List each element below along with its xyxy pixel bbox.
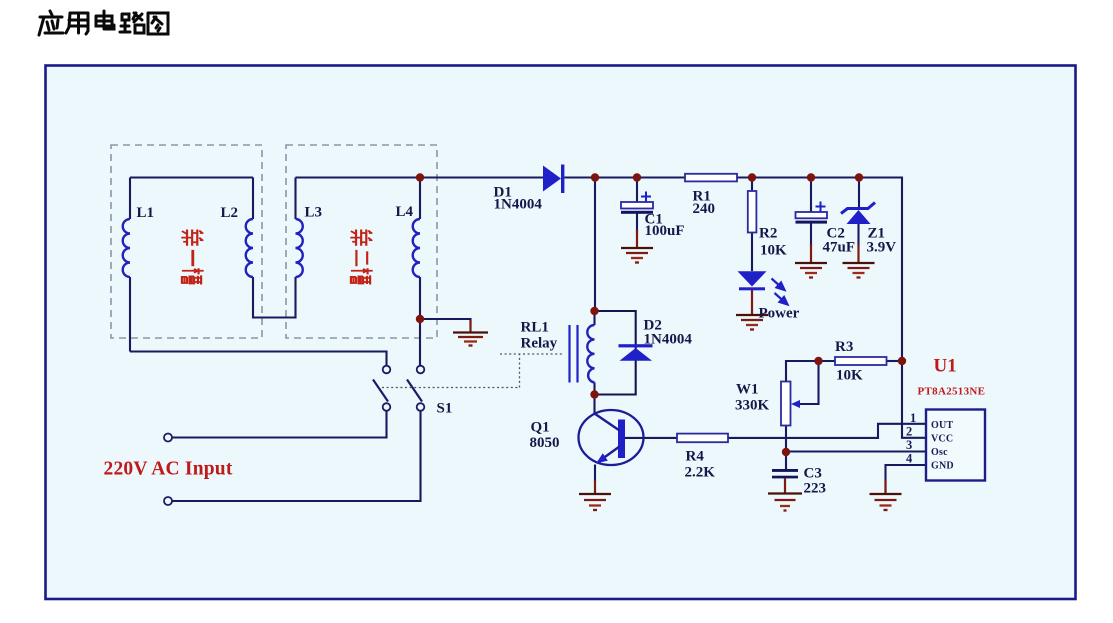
node rail-L4 (416, 173, 424, 181)
node relay top (590, 307, 598, 315)
wire Q1 base to R4 (625, 437, 677, 439)
wire L4 leads (419, 178, 421, 366)
svg-text:RL1: RL1 (521, 320, 549, 336)
电 (96, 11, 114, 29)
node rail-C2 (807, 173, 815, 181)
ground under C3 (768, 494, 802, 511)
dashed slot box 1 (111, 145, 262, 338)
wire S1 left pole bottom to terminal (172, 411, 387, 438)
svg-text:3.9V: 3.9V (867, 240, 897, 256)
terminal AC input top (164, 434, 172, 442)
svg-text:VCC: VCC (931, 434, 953, 445)
svg-text:8050: 8050 (530, 435, 560, 451)
ground under LED (736, 315, 768, 330)
应 (39, 11, 63, 35)
capacitor C3 (772, 469, 798, 478)
resistor R2 (748, 191, 757, 233)
svg-text:L4: L4 (396, 204, 414, 220)
wire R3 right (887, 360, 903, 362)
wire relay leads (593, 311, 595, 414)
node relay bottom (590, 390, 598, 398)
svg-text:GND: GND (931, 461, 954, 472)
inductor L1 (123, 219, 130, 277)
svg-text:10K: 10K (836, 368, 863, 384)
ground under Z1 (843, 263, 875, 278)
node W1-R3 (814, 357, 822, 365)
dashed slot box 2 (286, 145, 437, 338)
svg-text:L3: L3 (305, 205, 323, 221)
inductor L2 (246, 219, 253, 277)
relay RL1 coil (587, 325, 594, 383)
inductor L4 (413, 219, 420, 277)
wire U1 ground lead (884, 480, 886, 494)
potentiometer W1 (781, 382, 800, 426)
wire L4 ground lead (469, 320, 471, 332)
svg-text:10K: 10K (760, 243, 787, 259)
node rail-C1 (633, 173, 641, 181)
wire C1 bottom lead (636, 214, 638, 234)
wire C2 top lead (810, 178, 812, 213)
svg-text:Osc: Osc (931, 447, 948, 458)
U1 pin names (931, 420, 954, 472)
第一槽 vertical red text (drawn) (181, 229, 203, 284)
capacitor C1 (621, 192, 653, 214)
IC U1 box (926, 410, 985, 481)
diode D1 (543, 165, 564, 194)
路 (120, 13, 144, 33)
wire C3 ground lead (784, 479, 786, 494)
wire L2 leads and bottom U-link to L3 (253, 178, 296, 318)
用 (66, 13, 88, 34)
svg-text:220V AC Input: 220V AC Input (104, 459, 233, 480)
wire Z1 ground lead (857, 244, 859, 262)
node L4-ground (416, 315, 424, 323)
svg-text:R4: R4 (686, 449, 705, 465)
wire W1 top to R3 (786, 361, 819, 382)
wire top rail L1-L2 (130, 176, 253, 178)
node rail-relay (591, 173, 599, 181)
switch S1 blades (373, 380, 422, 402)
svg-text:S1: S1 (437, 401, 453, 417)
wire C2 bottom lead (810, 224, 812, 247)
图 (148, 13, 168, 34)
wire U1 Osc pin 3 to C3 node (786, 450, 926, 452)
wire C2 ground lead (810, 244, 812, 262)
wire top rail R1 to right corner, down to U1 VCC pin 2 (737, 178, 926, 438)
resistor R1 (685, 174, 737, 182)
ground lead segments (dark red) (471, 230, 886, 494)
wire L1 bottom to switch (130, 352, 387, 366)
第二槽 vertical red text (drawn) (350, 229, 372, 284)
transistor Q1 (579, 410, 644, 465)
wire R2 leads (751, 178, 753, 272)
node rail-R2 (748, 173, 756, 181)
node C3-Osc (782, 448, 790, 456)
svg-text:240: 240 (693, 201, 716, 217)
wire rail branch down to relay (594, 178, 596, 312)
inductor L3 (296, 219, 303, 277)
wire R4 to U1 OUT pin 1 (728, 424, 926, 438)
wire top rail D1 to R1 (565, 176, 686, 178)
wire L4 ground branch (420, 319, 471, 325)
capacitor C2 (796, 202, 828, 224)
svg-text:R2: R2 (759, 226, 777, 242)
wire D2 loop (595, 311, 636, 395)
svg-text:OUT: OUT (931, 420, 953, 431)
svg-text:L2: L2 (221, 205, 239, 221)
svg-text:L1: L1 (137, 205, 155, 221)
resistor R3 (835, 357, 887, 365)
svg-text:1N4004: 1N4004 (644, 332, 693, 348)
svg-text:1: 1 (910, 411, 916, 425)
switch S1 contact circles (383, 366, 425, 411)
title 应用电路图 (drawn strokes) (39, 11, 168, 35)
wire U1 GND pin 4 (886, 465, 927, 493)
switch S1 gang dotted link to relay (382, 354, 562, 388)
terminal AC input bottom (164, 497, 172, 505)
svg-text:W1: W1 (736, 382, 759, 398)
ground under C2 (795, 263, 827, 278)
ground under L4 (453, 333, 488, 346)
panel background and border (46, 66, 1076, 600)
svg-text:Q1: Q1 (531, 420, 550, 436)
wire top rail L3 to D1 (296, 176, 544, 178)
wire LED ground lead (751, 290, 753, 314)
svg-text:PT8A2513NE: PT8A2513NE (918, 386, 986, 398)
wire Q1 emitter down (594, 465, 596, 483)
ground under Q1 (579, 494, 611, 510)
ground under C1 (621, 248, 653, 263)
svg-text:R3: R3 (835, 339, 853, 355)
wire W1 bottom through node (785, 426, 787, 470)
svg-text:2: 2 (906, 425, 912, 439)
wire Z1 bottom lead (857, 224, 859, 246)
svg-text:330K: 330K (735, 398, 770, 414)
wire Z1 top lead (858, 178, 860, 208)
svg-text:4: 4 (906, 452, 913, 466)
wire C1 ground lead (636, 230, 638, 247)
diode D2 (619, 344, 653, 361)
relay RL1 core bars (570, 325, 578, 383)
svg-text:Power: Power (759, 306, 800, 322)
svg-text:2.2K: 2.2K (685, 465, 716, 481)
node R3-VCC rail (898, 357, 906, 365)
svg-text:1N4004: 1N4004 (494, 197, 543, 213)
svg-text:U1: U1 (934, 356, 957, 377)
svg-text:223: 223 (804, 481, 827, 497)
wire Q1 ground lead (594, 480, 596, 494)
U1 pin numbers (906, 411, 916, 466)
node rail-Z1 (855, 173, 863, 181)
wire W1 wiper (798, 361, 819, 404)
wire L3 top lead (294, 178, 296, 220)
svg-text:47uF: 47uF (823, 240, 856, 256)
svg-text:C3: C3 (804, 466, 822, 482)
wire S1 right pole bottom to terminal (172, 411, 421, 501)
zener diode Z1 (841, 203, 875, 225)
wire R3 left (819, 360, 836, 362)
resistor R4 (677, 434, 728, 443)
LED Power (738, 271, 788, 304)
junction dots (416, 173, 906, 456)
svg-text:100uF: 100uF (645, 223, 685, 239)
svg-text:3: 3 (906, 438, 912, 452)
wire C1 top lead (636, 178, 638, 203)
wire L1 leads (129, 178, 131, 352)
ground under U1 (870, 494, 902, 510)
svg-text:Relay: Relay (521, 336, 558, 352)
